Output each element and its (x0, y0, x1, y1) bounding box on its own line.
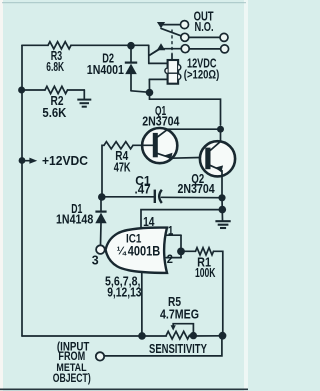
wire: bottom ground bus (22, 335, 223, 337)
arrow: supply (29, 158, 37, 164)
wire: R1 to bottom bus (214, 251, 223, 332)
wire: Q2 emitter down (221, 171, 223, 198)
wire: node A to D2 (130, 46, 132, 62)
wire: IC supply pins down to bus (141, 273, 143, 336)
resistor R3 (48, 42, 71, 49)
node D: R4 / D1 / C1 junction (98, 193, 106, 201)
svg-text:(>120Ω): (>120Ω) (184, 69, 220, 82)
node G: pin14 ground junction (219, 206, 227, 214)
pin 14 wire (141, 210, 219, 228)
svg-text:¼: ¼ (117, 245, 127, 257)
wire: coil bottom terminal down to node B (148, 79, 150, 92)
wire: node C to Q2 collector (220, 129, 222, 141)
wire: left +12V bus (21, 45, 23, 336)
transistor Q1 (142, 128, 177, 163)
wire: R4 left leg down to node D (102, 145, 104, 193)
relay coil K1 (165, 60, 181, 84)
relay contact arm 1 arrow (157, 22, 165, 28)
resistor R4 (104, 142, 133, 149)
wire: node D to D1 (100, 197, 102, 211)
relay contact arm 2 arrow (157, 43, 165, 50)
contact circle NO2 (181, 45, 189, 53)
svg-text:2N3704: 2N3704 (142, 115, 180, 129)
wire: pole2 terminal row (189, 48, 220, 50)
svg-text:.47: .47 (135, 182, 151, 197)
relay armature dashed link (171, 30, 173, 55)
wire: top rail corner down to coil top terminal (148, 45, 150, 63)
svg-text:SENSITIVITY: SENSITIVITY (149, 343, 207, 357)
wire: supply arrow stub (25, 160, 30, 162)
wire: link to coil core (171, 55, 173, 61)
wire: node E to R1 (181, 250, 196, 252)
capacitor C1 (155, 190, 162, 203)
op gate IC1 body (1/4 4001B NOR, mirrored) (96, 228, 167, 273)
contact circle NO1 (181, 21, 189, 29)
node: +12VDC supply point (19, 157, 26, 164)
ground (after R2) (77, 90, 91, 107)
svg-text:2N3704: 2N3704 (178, 183, 216, 196)
wire: arm2 to contact row (165, 48, 182, 50)
wire: R4 to Q1 base (133, 144, 153, 146)
wire: Q1 collector to node C (167, 128, 221, 130)
svg-text:5.6K: 5.6K (42, 106, 66, 121)
svg-text:+12VDC: +12VDC (42, 154, 88, 168)
wire: top rail (22, 44, 149, 46)
svg-text:2: 2 (167, 253, 173, 265)
top border line (2, 2, 246, 4)
wire: D2 anode to node B (131, 91, 150, 93)
diode D2 (cathode up) (125, 63, 137, 91)
node C: Q1/Q2 collector junction (217, 126, 224, 133)
svg-text:3: 3 (92, 253, 99, 267)
terminal circle pole1 (220, 33, 228, 41)
contact circle common1 (181, 33, 189, 41)
label 1/4 4001B (117, 243, 161, 258)
wire: common1 terminal row (189, 36, 220, 38)
diode D1 (cathode up) (95, 212, 106, 245)
terminal circle pole2 (221, 45, 229, 53)
resistor R5 (166, 331, 189, 339)
node A: top rail / D2 junction (127, 42, 135, 50)
svg-text:9,12,13: 9,12,13 (107, 287, 141, 300)
bottom border line (0, 388, 248, 390)
node: R5 wiper to bus (190, 332, 197, 339)
svg-text:1: 1 (168, 224, 173, 237)
svg-text:N.O.: N.O. (195, 21, 214, 35)
node: IC pins to bus (138, 332, 146, 340)
node E: gate input junction (177, 248, 185, 256)
svg-text:4001B: 4001B (128, 243, 161, 258)
wire: relay armature tap (149, 49, 159, 55)
node F: Q2 emitter / C1 ground junction (218, 194, 225, 201)
wire: relay coil lower terminal (149, 78, 167, 80)
svg-text:4.7MEG: 4.7MEG (160, 308, 199, 322)
resistor R1 (196, 248, 214, 255)
svg-text:100K: 100K (195, 267, 216, 281)
svg-text:6.8K: 6.8K (46, 60, 64, 74)
node B: coil / collector junction (146, 89, 154, 97)
wire: Q1 emitter to Q2 base (172, 156, 205, 159)
wire: arm1 pivot diagonal (161, 28, 181, 35)
pin 2 stub (166, 257, 181, 259)
input terminal circle (96, 352, 104, 360)
wire: node F to ground (221, 198, 224, 221)
svg-text:OBJECT): OBJECT) (53, 373, 91, 385)
wire: bus to R2 (22, 89, 84, 91)
wire: node D to C1 (102, 196, 154, 198)
transistor Q2 (200, 141, 235, 176)
svg-text:47K: 47K (114, 161, 131, 175)
wire: input terminal to node H (104, 336, 222, 356)
wire: arm2 pivot diagonal (149, 49, 158, 55)
node: bus to R2 junction (18, 87, 25, 94)
wire: pins 1-2 tie (180, 235, 182, 257)
resistor R2 (45, 86, 68, 93)
pin 1 stub (166, 234, 181, 236)
svg-text:1N4148: 1N4148 (56, 213, 94, 227)
svg-text:14: 14 (143, 216, 155, 229)
svg-text:1N4001: 1N4001 (87, 64, 125, 77)
potentiometer R5 wiper (171, 324, 194, 332)
wire: C1 to ground node (162, 196, 219, 198)
wire: relay coil upper terminal (149, 62, 168, 64)
wire: node B down and right to collectors (150, 93, 221, 126)
ground (main) (215, 221, 230, 228)
node H: bus / R1 / input junction (219, 332, 227, 340)
wire: arm1 to NO contact (162, 24, 180, 26)
